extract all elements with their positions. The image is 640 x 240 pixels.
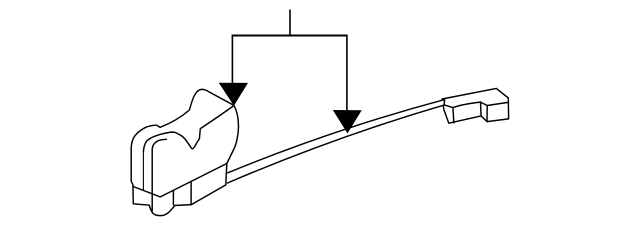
bracket top silhouette (160, 89, 234, 127)
connector step vertical 2 (486, 106, 488, 122)
wire cable bottom line (228, 105, 445, 183)
bracket bottom-left edge (131, 181, 149, 205)
connector main ridge (453, 102, 481, 108)
wire cable top line (228, 100, 445, 173)
foot tab (149, 205, 174, 215)
bottom edge to flange (175, 185, 226, 206)
connector step edge (481, 102, 488, 105)
connector outline (442, 88, 509, 123)
callout left drop (231, 36, 233, 85)
callout horizontal (232, 35, 348, 37)
flange vertical (190, 181, 192, 204)
cable end cap (443, 100, 446, 106)
channel inner edge (152, 139, 166, 211)
connector divider (453, 108, 454, 123)
callout right drop (346, 36, 348, 112)
callout stem (289, 10, 291, 36)
channel outer edge vertical (142, 152, 144, 191)
foot right vertical (172, 191, 174, 205)
bracket right edge (226, 105, 239, 185)
connector step vertical 1 (480, 102, 483, 116)
connector collar ridge (444, 105, 453, 108)
channel outer edge (143, 132, 199, 152)
arrowhead left (219, 83, 248, 106)
bracket left edge (131, 125, 160, 181)
arrowhead right (333, 110, 362, 133)
front face fold line (133, 164, 227, 197)
front-top ridge tip to fold (199, 106, 234, 139)
wire cable occluding band (228, 100, 445, 183)
connector right ridge (487, 102, 508, 105)
